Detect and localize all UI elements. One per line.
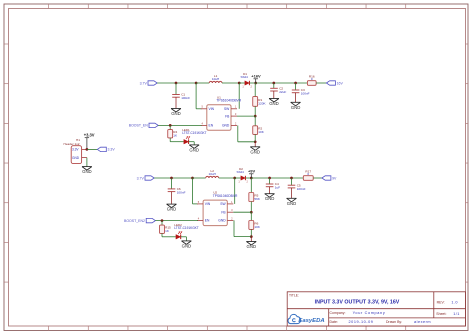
resistor R17	[303, 169, 313, 180]
svg-text:GND: GND	[82, 169, 92, 174]
svg-text:BOOST_EN2: BOOST_EN2	[124, 219, 145, 223]
resistor R15	[160, 225, 172, 233]
capacitor C4	[266, 182, 280, 189]
port 3.3V (header)	[97, 147, 115, 152]
svg-text:VIN: VIN	[209, 107, 215, 111]
wire R15 to LED2	[162, 233, 176, 236]
ground under R6	[246, 242, 256, 250]
svg-text:0: 0	[311, 77, 313, 81]
junction H1 pin1	[86, 148, 89, 151]
ground under LED2	[182, 241, 192, 249]
junction C3 tap	[294, 82, 297, 85]
junction C4 tap	[268, 177, 271, 180]
wire R17 to port	[313, 177, 322, 179]
wire C6 lead	[171, 178, 173, 189]
resistor R6	[249, 221, 261, 230]
svg-text:GND: GND	[218, 219, 226, 223]
EasyEDA logo	[288, 314, 325, 324]
wire H1 pin2 to gnd	[86, 158, 88, 167]
port 16V (top output)	[326, 81, 343, 86]
svg-text:3.7V: 3.7V	[137, 176, 145, 180]
title block	[287, 292, 465, 326]
junction C6 tap	[170, 177, 173, 180]
svg-text:100nF: 100nF	[301, 92, 310, 96]
svg-text:10K: 10K	[258, 130, 264, 134]
ground under C1	[171, 109, 181, 117]
diode LED1 LTST-C191KGKT	[182, 128, 206, 144]
svg-text:SS24: SS24	[241, 75, 249, 79]
port 3.7V (top input)	[140, 81, 158, 86]
wire FB to R2	[254, 116, 256, 126]
wire R15 top lead	[161, 221, 163, 226]
junction R2 gnd node	[254, 140, 257, 143]
svg-text:SS24: SS24	[237, 170, 245, 174]
capacitor C1	[172, 93, 190, 100]
svg-text:GND: GND	[171, 111, 181, 116]
svg-text:VIN: VIN	[205, 202, 211, 206]
wire VIN drop	[196, 83, 202, 109]
capacitor C5	[288, 183, 306, 190]
svg-text:56K: 56K	[254, 197, 260, 201]
wire 16V to R1	[254, 83, 256, 97]
resistor R1	[253, 97, 267, 107]
diode D2 SS24	[237, 167, 249, 184]
junction C1 tap	[175, 82, 178, 85]
wire R6 to gnd node	[250, 229, 252, 236]
wire FB to U2	[233, 211, 251, 213]
svg-text:+9V: +9V	[248, 169, 256, 174]
svg-text:100nF: 100nF	[177, 191, 186, 195]
resistor R2	[253, 126, 265, 135]
svg-text:3.3V: 3.3V	[108, 148, 116, 152]
svg-text:3.7V: 3.7V	[140, 81, 148, 85]
wire 9V to R5	[250, 178, 252, 193]
svg-text:BOOST_EN: BOOST_EN	[129, 124, 149, 128]
wire 9V rail	[251, 177, 303, 179]
svg-text:3.3V: 3.3V	[72, 148, 79, 152]
ground under C6	[167, 204, 177, 212]
inductor L2	[206, 169, 219, 178]
svg-text:10K: 10K	[254, 225, 260, 229]
wire LED2 cathode	[181, 237, 187, 241]
svg-text:1/1: 1/1	[453, 312, 459, 316]
wire SW node to D1	[239, 82, 245, 84]
resistor R4	[168, 130, 178, 138]
svg-text:TPS61040DBVR: TPS61040DBVR	[216, 99, 241, 103]
svg-text:Header 1x2: Header 1x2	[64, 142, 80, 146]
power flag +16V	[251, 74, 261, 83]
svg-text:GND: GND	[291, 105, 301, 110]
wire R1 to FB node	[254, 106, 256, 116]
svg-text:10uH: 10uH	[212, 77, 219, 81]
port 3.7V (bottom input)	[137, 176, 155, 181]
svg-text:EN: EN	[209, 124, 214, 128]
wire FB to U1	[237, 115, 255, 117]
wire SW drop	[238, 83, 240, 109]
svg-text:GND: GND	[287, 201, 297, 206]
wire C4 lead	[269, 178, 271, 184]
svg-text:REV:: REV:	[437, 301, 445, 305]
junction SW node bottom	[233, 177, 236, 180]
junction R6 gnd node	[250, 235, 253, 238]
junction C2 tap	[272, 82, 275, 85]
ground under R2	[250, 147, 260, 155]
junction C5 tap	[290, 177, 293, 180]
wire L2 to SW node	[219, 177, 235, 179]
svg-text:TITLE:: TITLE:	[289, 293, 299, 297]
ground under LED1	[189, 145, 199, 153]
svg-text:2019-10-09: 2019-10-09	[349, 320, 374, 324]
wire SW node to D2	[235, 177, 241, 179]
wire R4 to LED1	[170, 138, 184, 142]
svg-text:Date:: Date:	[330, 320, 338, 324]
wire L1 to SW node	[222, 82, 239, 84]
resistor R5	[249, 193, 261, 202]
junction VIN branch	[195, 82, 198, 85]
ground under C2	[269, 99, 279, 107]
wire input rail top	[157, 82, 196, 84]
wire BOOST_EN2 to U2 EN	[155, 220, 198, 222]
port 9V (bottom output)	[322, 176, 337, 181]
op-amp U2 TPS61040DBVR	[197, 191, 238, 226]
ground under H1	[82, 167, 92, 175]
svg-text:100nF: 100nF	[181, 96, 190, 100]
svg-text:GND: GND	[189, 147, 199, 152]
wire U1 gnd pin	[238, 125, 255, 141]
svg-text:EN: EN	[205, 219, 210, 223]
junction R4 tap	[169, 124, 172, 127]
wire VIN drop bottom	[193, 178, 198, 204]
svg-text:Your Company: Your Company	[353, 311, 386, 315]
svg-text:INPUT 3.3V OUTPUT 3.3V, 9V, 16: INPUT 3.3V OUTPUT 3.3V, 9V, 16V	[315, 299, 400, 305]
capacitor C6	[168, 187, 186, 194]
junction SW node	[238, 82, 241, 85]
svg-text:1uF: 1uF	[275, 186, 280, 190]
svg-text:9V: 9V	[332, 176, 337, 180]
wire R5 to FB node	[250, 202, 252, 213]
svg-text:120K: 120K	[258, 101, 266, 105]
svg-text:GND: GND	[182, 243, 192, 248]
wire rail to L2	[193, 177, 206, 179]
wire C3 lead	[295, 83, 297, 90]
svg-text:GND: GND	[167, 207, 177, 212]
svg-text:Sheet:: Sheet:	[436, 312, 446, 316]
svg-text:+3.3V: +3.3V	[84, 133, 95, 138]
wire SW drop bottom	[234, 178, 236, 204]
svg-text:TPS61040DBVR: TPS61040DBVR	[213, 194, 238, 198]
wire 16V rail	[256, 82, 308, 84]
svg-text:alexerm: alexerm	[414, 320, 431, 324]
svg-text:GND: GND	[72, 156, 80, 160]
wire C5 lead	[291, 178, 293, 185]
wire D1 to 16V node	[250, 82, 256, 84]
op-amp U1 TPS61040DBVR	[201, 95, 242, 130]
wire input rail bottom	[154, 177, 192, 179]
wire R16 to port	[316, 82, 326, 84]
connector H1 Header 1x2	[64, 138, 87, 164]
wire C2 lead	[273, 83, 275, 88]
svg-text:GND: GND	[265, 196, 275, 201]
svg-text:LTST-C191KGKT: LTST-C191KGKT	[174, 226, 198, 230]
svg-text:EasyEDA: EasyEDA	[298, 318, 324, 324]
junction VIN branch bottom	[191, 177, 194, 180]
wire H1 pin1 to port	[87, 148, 97, 150]
capacitor C3	[292, 88, 310, 95]
wire LED1 cathode	[189, 142, 195, 145]
port BOOST_EN	[129, 123, 158, 128]
svg-text:GND: GND	[247, 244, 257, 249]
junction FB node top	[254, 115, 257, 118]
svg-text:10uH: 10uH	[208, 172, 215, 176]
ground under C3	[291, 102, 301, 110]
capacitor C2	[270, 87, 286, 94]
inductor L1	[209, 74, 222, 83]
resistor R16	[307, 74, 316, 85]
wire R4 top lead	[169, 125, 171, 129]
svg-text:1.0: 1.0	[451, 301, 457, 305]
svg-text:LTST-C191KGKT: LTST-C191KGKT	[182, 131, 206, 135]
svg-text:GND: GND	[222, 124, 230, 128]
svg-text:100nF: 100nF	[297, 187, 306, 191]
wire U2 gnd pin	[234, 220, 251, 236]
wire BOOST_EN to U1 EN	[158, 124, 201, 126]
svg-text:22uF: 22uF	[279, 90, 286, 94]
wire rail to L1	[196, 82, 209, 84]
junction R15 tap	[161, 219, 164, 222]
svg-text:SW: SW	[220, 202, 226, 206]
wire R2 to gnd node	[254, 134, 256, 141]
svg-text:Company:: Company:	[330, 311, 346, 315]
port BOOST_EN2	[124, 218, 155, 223]
svg-text:Drawn By:: Drawn By:	[386, 320, 402, 324]
wire D2 to 9V node	[246, 177, 252, 179]
power flag +9V	[248, 169, 256, 178]
svg-text:0: 0	[307, 172, 309, 176]
wire FB to R6	[250, 212, 252, 220]
junction FB node bottom	[250, 211, 253, 214]
svg-text:GND: GND	[250, 149, 260, 154]
svg-text:16V: 16V	[337, 81, 344, 85]
wire C1 to rail	[175, 83, 177, 95]
junction +16V node	[254, 82, 257, 85]
power flag +3.3V	[84, 133, 95, 150]
ground under C4	[265, 194, 275, 202]
diode LED2 LTST-C191KGKT	[174, 223, 198, 239]
svg-text:GND: GND	[269, 101, 279, 106]
junction +9V node	[250, 177, 253, 180]
svg-text:SW: SW	[224, 107, 230, 111]
svg-text:+16V: +16V	[251, 74, 261, 79]
ground under C5	[287, 198, 297, 206]
diode D1 SS24	[241, 72, 253, 89]
